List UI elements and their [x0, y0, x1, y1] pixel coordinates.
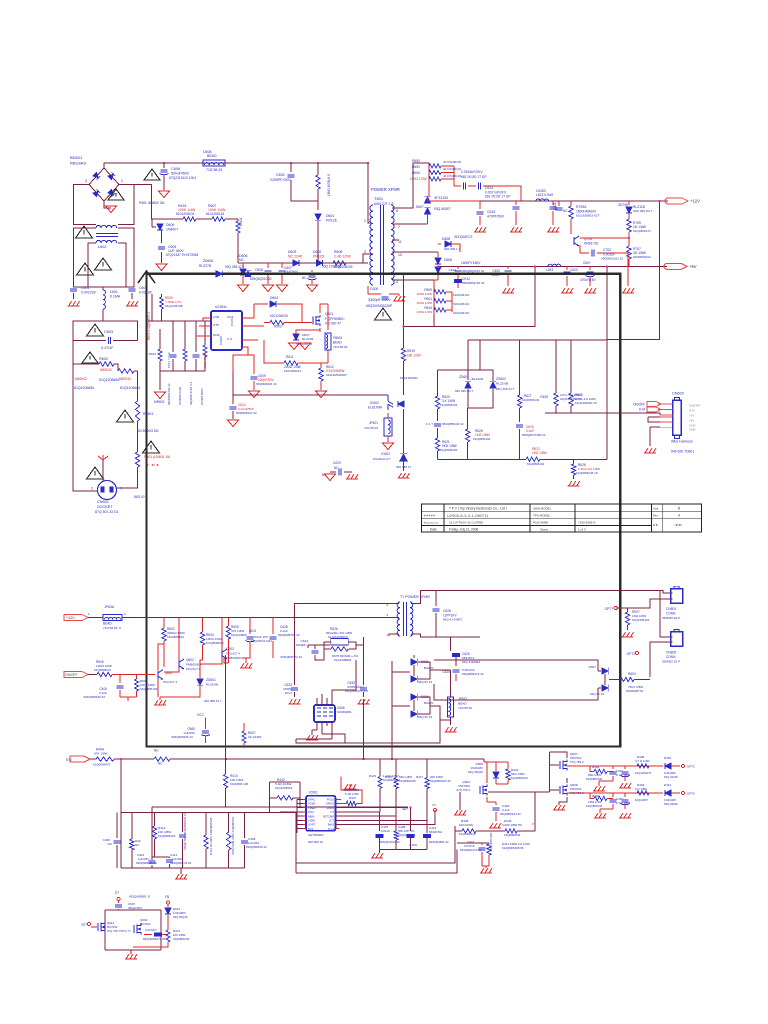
svg-text:1KVJ: 1KVJ [285, 691, 293, 695]
wire Q602 collector net [163, 644, 165, 654]
wire opto to JP601 [387, 413, 389, 418]
diode D612 [167, 904, 169, 908]
svg-text:61Q1206249: 61Q1206249 [334, 265, 353, 269]
svg-text:61Q0806102: 61Q0806102 [527, 462, 545, 466]
ground R447a [344, 784, 356, 789]
svg-text:SOCKET: SOCKET [97, 505, 113, 509]
svg-text:C630: C630 [276, 173, 285, 177]
svg-text:693Q608106 22: 693Q608106 22 [246, 845, 267, 849]
svg-text:22 1/16W: 22 1/16W [248, 735, 261, 739]
wire choke to X-cap row left [74, 228, 134, 287]
svg-text:BEAD: BEAD [333, 341, 342, 345]
svg-text:470uF/16V: 470uF/16V [580, 278, 596, 282]
capacitor C618 [457, 266, 459, 269]
wire secondary return [433, 315, 435, 327]
capacitor C603 [113, 340, 138, 342]
svg-text:C#280: C#280 [536, 189, 546, 193]
svg-text:1Ω NMΩ DXC: 1Ω NMΩ DXC [489, 832, 493, 850]
svg-text:93Q 395 4Ω T: 93Q 395 4Ω T [633, 209, 653, 213]
svg-text:500uF450V: 500uF450V [171, 172, 190, 176]
resistor R620p [161, 294, 163, 297]
svg-text:OPT2: OPT2 [687, 792, 695, 796]
svg-text:2: 2 [121, 179, 123, 183]
svg-text:VCC: VCC [197, 713, 205, 717]
ground C462 [619, 813, 631, 818]
svg-text:D609: D609 [166, 223, 174, 227]
svg-text:680KΩ: 680KΩ [75, 377, 87, 381]
svg-text:7: 7 [398, 225, 400, 229]
resistor R605m [227, 618, 229, 627]
svg-text:OVPT: OVPT [308, 823, 316, 827]
svg-text:9?Q08 5683: 9?Q08 5683 [200, 388, 204, 405]
ground C601 [68, 301, 80, 306]
capacitor C633m [291, 688, 298, 690]
svg-text:6101206118: 6101206118 [206, 212, 224, 216]
capacitor C414 [168, 857, 170, 858]
ground bottom rail [175, 874, 187, 879]
CN602 pin wires [658, 403, 673, 405]
svg-text:ZD606: ZD606 [203, 259, 213, 263]
transistor Q603 [221, 650, 223, 658]
svg-text:21-L07TN24. 02 CU7R56: 21-L07TN24. 02 CU7R56 [449, 521, 483, 525]
capacitor C629 NC [330, 471, 336, 473]
ground C616a [510, 227, 522, 232]
resistor R442 [269, 797, 277, 799]
wire choke bottom taps [88, 243, 96, 287]
svg-text:93Q 64326: 93Q 64326 [664, 802, 678, 806]
capacitor C607b [118, 900, 120, 903]
svg-text:NC: NC [302, 276, 307, 280]
svg-text:6101206101: 6101206101 [453, 311, 469, 315]
svg-text:OPT1: OPT1 [687, 765, 695, 769]
svg-text:# # # # #: # # # # # [424, 514, 435, 518]
svg-text:61Q0806103: 61Q0806103 [140, 687, 158, 691]
ground Q608 [553, 805, 565, 810]
resistor R607 [196, 218, 212, 220]
ground JP632 [445, 727, 457, 732]
svg-text:C.26Ω: C.26Ω [409, 843, 417, 847]
svg-text:CT: CT [330, 810, 334, 814]
svg-text:E/N: E/N [66, 758, 72, 762]
capacitor C621 [552, 201, 554, 205]
svg-text:R625: R625 [540, 395, 548, 399]
svg-text:47K 1/8W: 47K 1/8W [94, 752, 108, 756]
wire R442 box [269, 781, 300, 783]
resistor R602m [163, 618, 165, 629]
E/N input flag [70, 756, 90, 762]
svg-text:TMER: TMER [308, 806, 316, 810]
wire standby lower bus2 [322, 734, 345, 743]
svg-text:+12V: +12V [690, 199, 700, 204]
svg-text:JP63A: JP63A [104, 605, 115, 609]
snubber resistor R605 [317, 163, 319, 175]
svg-text:OPT?: OPT? [605, 607, 614, 611]
svg-text:C603: C603 [104, 330, 113, 334]
svg-text:R602: R602 [99, 357, 108, 361]
svg-text:T P V ( Top Victory Elect: T P V ( Top Victory Electronics Co. , Lt… [449, 507, 507, 511]
zener ZD602 [490, 382, 496, 388]
wire Q704 base [580, 237, 629, 239]
svg-text:6101206104: 6101206104 [176, 212, 195, 216]
capacitor C406 NC [116, 813, 118, 839]
+12V input flag [64, 615, 88, 621]
bead L608 [203, 160, 225, 166]
svg-text:RLZ5.6B: RLZ5.6B [206, 683, 218, 687]
capacitor C411b [144, 934, 152, 936]
svg-text:61Q1206?: 61Q1206? [635, 798, 649, 802]
svg-text:93Q 6826T: 93Q 6826T [434, 207, 451, 211]
resistor R604m [202, 618, 204, 633]
svg-text:CN601: CN601 [97, 500, 109, 504]
diode D411 [665, 790, 671, 796]
svg-text:SF13100: SF13100 [434, 196, 448, 200]
capacitor C619 [516, 425, 523, 427]
transformer T602 [397, 602, 400, 636]
svg-text:94Q 6bQ26: 94Q 6bQ26 [468, 770, 483, 774]
svg-text:71Ω 58.29: 71Ω 58.29 [333, 345, 348, 349]
ground C610 [228, 420, 239, 427]
svg-text:680KΩ: 680KΩ [119, 377, 131, 381]
svg-text:0.0022UF: 0.0022UF [81, 291, 96, 295]
wire ON/OFF [88, 674, 97, 676]
svg-text:1000pF: 1000pF [296, 643, 306, 647]
svg-text:SET: SET [402, 807, 408, 811]
svg-text:61Q1206?3B: 61Q1206?3B [165, 304, 183, 308]
power transformer T601 [370, 205, 373, 285]
svg-text:LCT: LCT [329, 819, 334, 823]
svg-text:C621: C621 [553, 202, 557, 210]
svg-text:COMP: COMP [219, 336, 223, 345]
resistor R601 [73, 363, 99, 365]
wire C702 ground stub [620, 253, 628, 286]
socket CN601 [98, 481, 117, 500]
zener ZD606b on boundary [216, 271, 223, 278]
svg-text:D-M: D-M [689, 409, 695, 413]
svg-text:N.C2: N.C2 [328, 827, 335, 831]
svg-text:POWER XFMR: POWER XFMR [371, 187, 400, 192]
svg-text:61Q0806103: 61Q0806103 [158, 834, 176, 838]
svg-text:C#14: C#14 [449, 268, 457, 272]
svg-text:RT601: RT601 [143, 412, 153, 416]
optocoupler IC602 [388, 395, 393, 410]
capacitor C616z [434, 424, 441, 426]
svg-text:950Q8Q5152 32: 950Q8Q5152 32 [462, 269, 485, 273]
wire EN branch down [120, 759, 122, 868]
transistor Q704 [573, 237, 575, 245]
svg-text:6101206226: 6101206226 [270, 314, 288, 318]
svg-text:4F D7206101: 4F D7206101 [443, 174, 462, 178]
svg-text:0.047uF?: 0.047uF? [145, 928, 157, 932]
resistor R607m [243, 723, 245, 731]
thermistor RT601 [135, 401, 139, 421]
svg-text:C601: C601 [81, 286, 89, 290]
rectifier D621 dual [413, 655, 415, 658]
resistor R420 [507, 762, 509, 769]
capacitor C612m [272, 618, 274, 635]
svg-text:61Q0806203 2F: 61Q0806203 2F [430, 779, 451, 783]
svg-text:ZD601: ZD601 [459, 375, 469, 379]
ground IC606 [306, 735, 318, 740]
wire standby fb net [483, 759, 485, 762]
mosfet Q601 [313, 316, 316, 325]
wire bottom bus y873 [296, 850, 457, 873]
svg-text:CT: CT [432, 803, 436, 807]
svg-text:61Q0806103: 61Q0806103 [522, 398, 540, 402]
svg-text:693Q6Q910 32: 693Q6Q910 32 [250, 277, 272, 281]
svg-text:97Q 617 4: 97Q 617 4 [186, 667, 200, 671]
svg-text:470PF/50V: 470PF/50V [487, 215, 505, 219]
wire mid vertical to low rail [362, 699, 364, 759]
inductor L622 [536, 199, 549, 201]
svg-text:99Q0809164 32: 99Q0809164 32 [500, 812, 521, 816]
svg-text:C702: C702 [603, 248, 611, 252]
svg-text:93Q 64326: 93Q 64326 [664, 775, 678, 779]
diode D603 [293, 260, 299, 266]
transistor Q602m [178, 660, 180, 668]
capacitor C623 [566, 266, 568, 270]
junction dots bottom [225, 758, 227, 760]
svg-text:C611: C611 [249, 629, 257, 633]
wire VCC down [205, 718, 207, 730]
resistor R606m [97, 672, 112, 676]
svg-text:10: 10 [398, 253, 402, 257]
svg-text:R613 9.1Q0M8?2 4: R613 9.1Q0M8?2 4 [147, 312, 151, 340]
svg-text:F?: F? [532, 822, 536, 826]
resistor R414 [228, 813, 230, 833]
svg-text:1N4007: 1N4007 [166, 228, 178, 232]
svg-text:100Ω 1/2W: 100Ω 1/2W [416, 292, 432, 296]
warning triangle socket [87, 467, 104, 479]
ground R612 [316, 391, 327, 398]
boundary corner arrow [138, 271, 155, 283]
+12V output arrow [665, 198, 688, 204]
svg-text:C606: C606 [171, 167, 180, 171]
capacitor C660 [202, 731, 209, 733]
svg-text:0.01uF: 0.01uF [381, 829, 390, 833]
svg-text:GPA1: GPA1 [308, 798, 315, 802]
svg-text:R705A: R705A [576, 205, 587, 209]
inductor L601 [102, 287, 104, 290]
zener ZD601m [199, 664, 201, 678]
svg-text:94Q 6dQ26: 94Q 6dQ26 [173, 915, 188, 919]
svg-text:693Q6Q892 U2: 693Q6Q892 U2 [429, 840, 449, 844]
wire cap row bottom [380, 849, 428, 851]
resistor R446 [505, 829, 517, 833]
ground C629 right [346, 474, 358, 479]
svg-text:99Q0803104 32: 99Q0803104 32 [167, 383, 171, 405]
svg-text:67Q21637 9Y15T3964: 67Q21637 9Y15T3964 [166, 253, 198, 257]
diode D410 [665, 763, 671, 769]
wire Q604 net [496, 783, 508, 785]
wire fuse to socket pin1 [116, 467, 138, 488]
ground C629 left [325, 474, 336, 481]
svg-text:BEAD: BEAD [103, 622, 112, 626]
resistor R619 [403, 274, 405, 327]
svg-text:R61? 75KΩ: R61? 75KΩ [203, 352, 207, 368]
svg-text:350M20 2E P: 350M20 2E P [662, 616, 680, 620]
IC661 left pin wires [303, 798, 306, 800]
diode D602b [317, 260, 323, 266]
wire C628 net [293, 602, 295, 604]
wire +12V input [88, 617, 103, 619]
svg-text:61Q1206684: 61Q1206684 [99, 378, 119, 382]
IC661 right pin stubs [335, 798, 339, 800]
svg-text:D-M: D-M [639, 408, 645, 412]
svg-text:KRB1?2E: KRB1?2E [584, 242, 599, 246]
svg-text:uC394x: uC394x [215, 305, 227, 309]
wire sense bus [468, 339, 607, 341]
svg-text:61Q0806105: 61Q0806105 [399, 779, 416, 783]
resistor C408b [395, 816, 397, 831]
transistor Q601m [157, 671, 159, 679]
svg-text:61Q1206519: 61Q1206519 [275, 786, 293, 790]
ground C422 [593, 786, 605, 791]
svg-text:U2905-A-3-X-1-080711: U2905-A-3-X-1-080711 [447, 513, 489, 518]
resistor R412 [154, 813, 156, 827]
capacitor C600 3300pF [368, 286, 381, 294]
common mode choke L602 [96, 225, 117, 228]
diode D604 [254, 303, 268, 305]
svg-text:3: 3 [364, 250, 366, 254]
svg-text:0.1MH: 0.1MH [110, 295, 121, 299]
resistor R417 [426, 759, 428, 778]
svg-text:Rep/componen: Rep/componen [424, 523, 440, 525]
svg-text:61K2/16W: 61K2/16W [459, 823, 473, 827]
svg-text:93Q 6b 33: 93Q 6b 33 [418, 715, 432, 719]
svg-text:L622 0.5uH: L622 0.5uH [536, 193, 554, 197]
wire CN802 pins [660, 590, 673, 637]
svg-text:CN602: CN602 [672, 392, 684, 396]
svg-text:61Q16P47144J: 61Q16P47144J [251, 639, 272, 643]
zener ZD607 [319, 328, 321, 332]
resistor R40A [96, 757, 114, 761]
capacitor C620r [453, 670, 460, 672]
component CR12 [454, 279, 462, 283]
resistor R415 [379, 759, 381, 776]
diode D614 on boundary [245, 271, 251, 277]
spark gap above socket [98, 455, 108, 460]
wire bus y812 [121, 812, 296, 814]
svg-text:ABIN: ABIN [308, 814, 314, 818]
svg-text:87Q 501 32 DL: 87Q 501 32 DL [95, 510, 119, 514]
svg-text:91-EX2Q58Q0: 91-EX2Q58Q0 [328, 635, 348, 639]
svg-text:61Q0806511: 61Q0806511 [504, 833, 521, 837]
capacitor C432 [624, 766, 626, 769]
resistor R705A [570, 201, 572, 206]
OPT1 out pin [681, 764, 684, 767]
svg-text:67Q 759 2: 67Q 759 2 [456, 788, 470, 792]
svg-text:693Q608?84 32: 693Q608?84 32 [278, 633, 300, 637]
svg-text:R614: R614 [149, 352, 157, 356]
wire primary aux row [148, 320, 211, 322]
svg-text:NC 224P: NC 224P [288, 255, 303, 259]
svg-text:93Q 6b 33: 93Q 6b 33 [418, 680, 432, 684]
wire SET down [410, 808, 412, 831]
wire sense bus right [606, 413, 608, 460]
svg-text:FB: FB [165, 895, 169, 899]
svg-text:6101626819 62T: 6101626819 62T [576, 214, 600, 218]
svg-text:D601: D601 [326, 214, 334, 218]
diode D609 [151, 219, 153, 227]
ground C621 [547, 227, 559, 232]
svg-text:0.0015uF/2KV: 0.0015uF/2KV [461, 170, 483, 174]
ground C605 [156, 264, 167, 271]
svg-text:R447: R447 [349, 796, 357, 800]
ground C607p [277, 285, 288, 292]
ground C632m [357, 699, 369, 704]
capacitor C609 [233, 347, 248, 373]
svg-text:940 388 24 7: 940 388 24 7 [204, 699, 222, 703]
mosfet Q604 [480, 786, 483, 795]
ground C620e [584, 288, 596, 293]
capacitor C407b [379, 812, 381, 831]
svg-text:5.1Ω 1/4W: 5.1Ω 1/4W [345, 792, 359, 796]
ground C602 [126, 301, 138, 306]
svg-text:D603: D603 [288, 250, 296, 254]
svg-text:7150-2905-A: 7150-2905-A [578, 521, 595, 525]
svg-text:61D0606102: 61D0606102 [633, 255, 651, 259]
svg-text:61Q120865: 61Q120865 [231, 633, 247, 637]
svg-text:ZD602: ZD602 [496, 377, 506, 381]
capacitor C601s NC [558, 201, 560, 206]
capacitor C405 220pF [182, 813, 184, 833]
capacitor C604s [454, 185, 461, 187]
svg-text:66Q 3J306ET: 66Q 3J306ET [462, 660, 481, 664]
capacitor C604m [119, 675, 121, 684]
svg-text:69Q0806472 32: 69Q0806472 32 [462, 672, 484, 676]
warning triangle R602 [82, 352, 98, 363]
wire aux bottom row [160, 370, 205, 372]
T601 pin wires left [368, 163, 372, 223]
svg-text:S/O802ML: S/O802ML [337, 710, 352, 714]
standby controller IC606 [314, 705, 335, 722]
capacitor C612p [172, 321, 174, 352]
svg-text:C614: C614 [485, 186, 493, 190]
svg-text:NC: NC [158, 762, 163, 766]
capacitor C611m [249, 618, 251, 635]
svg-text:NC: NC [334, 466, 339, 470]
svg-text:ON/OFF: ON/OFF [65, 673, 77, 677]
resistor R416 [395, 759, 397, 778]
svg-text:390pF/50V: 390pF/50V [128, 906, 142, 910]
svg-text:67Q 759 2: 67Q 759 2 [570, 760, 584, 764]
dual diode D623 [602, 668, 609, 675]
bottom left box [105, 909, 161, 911]
svg-text:SETCMP: SETCMP [323, 814, 334, 818]
resistor R620z [437, 370, 439, 396]
svg-text:BEAD: BEAD [207, 154, 217, 158]
svg-text:NC: NC [108, 842, 113, 846]
svg-text:97Q 708 J?97Q 7?: 97Q 708 J?97Q 7? [107, 929, 131, 933]
svg-text:NC: NC [239, 258, 245, 262]
svg-text:C600: C600 [370, 287, 378, 291]
svg-text:61Q1206181: 61Q1206181 [400, 376, 418, 380]
wire R901 to flag [628, 607, 640, 609]
svg-text:61Q0806105: 61Q0806105 [511, 776, 528, 780]
svg-text:8: 8 [396, 209, 398, 213]
shunt reg IC603 [403, 409, 405, 453]
resistor R426 [455, 830, 462, 832]
IC606 pin wires bottom [316, 722, 318, 730]
resistor R442b [483, 758, 485, 760]
ground C615 [474, 227, 486, 232]
svg-text:+RL21Ω9: +RL21Ω9 [470, 377, 484, 381]
IC606 pin wires top [316, 698, 318, 705]
rectifier D602 SF13100 [424, 197, 430, 203]
svg-text:350M20 2E P: 350M20 2E P [662, 660, 680, 664]
svg-text:F601 (LB601 5A: F601 (LB601 5A [144, 455, 171, 459]
svg-text:T? POWER XFMR: T? POWER XFMR [400, 595, 430, 599]
